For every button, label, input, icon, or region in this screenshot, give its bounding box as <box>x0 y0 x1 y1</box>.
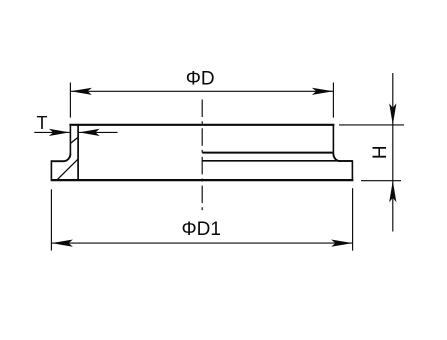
svg-text:ΦD1: ΦD1 <box>181 219 220 240</box>
svg-text:ΦD: ΦD <box>186 69 215 90</box>
svg-text:H: H <box>370 145 391 159</box>
svg-text:T: T <box>37 113 48 133</box>
